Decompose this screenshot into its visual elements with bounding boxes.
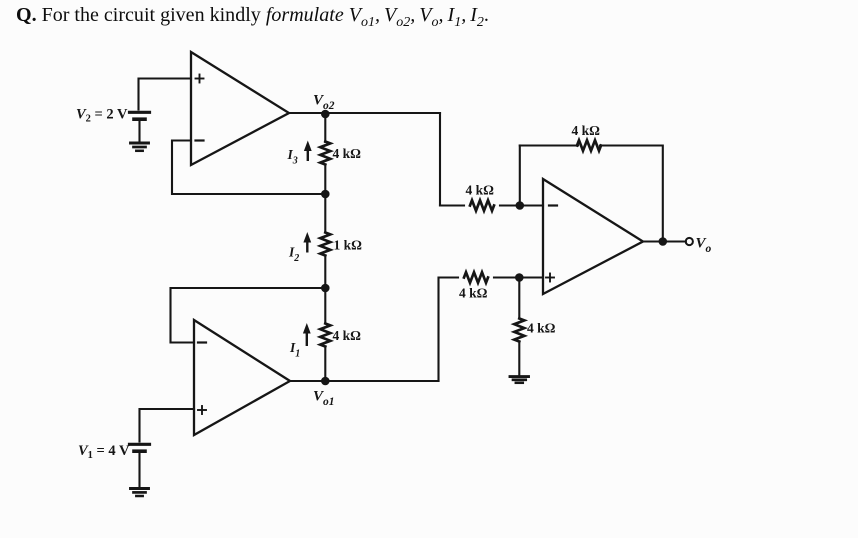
resistor 4 kOhm (U3 + to ground): [514, 319, 524, 342]
resistor 4 kOhm (to U3 + input): [464, 272, 488, 282]
resistor 4 kOhm (chain top): [320, 142, 330, 165]
wire: battery V1 to U2 + input: [140, 409, 195, 442]
op-amp U1 (top-left): [191, 52, 289, 165]
wire: U1 output to Vo2 riser: [289, 112, 440, 114]
svg-text:Vo2: Vo2: [313, 93, 335, 113]
wire: 4k resistor to node C: [500, 204, 543, 206]
svg-text:4 kΩ: 4 kΩ: [459, 286, 488, 301]
wire: U2 - input feedback from node B: [171, 288, 323, 343]
node A (U1 feedback node): [321, 190, 330, 199]
node D (U3 + input node): [515, 273, 524, 282]
wire: riser to 4k input resistor (top): [440, 204, 464, 206]
wire: node B to 4k resistor: [324, 288, 326, 324]
svg-text:Vo1: Vo1: [313, 389, 335, 409]
wire: 1k resistor to node B: [324, 256, 326, 289]
ground (U3 + network): [510, 377, 529, 383]
U2 inverting input '-' marker: [198, 341, 206, 343]
svg-text:V1 = 4 V: V1 = 4 V: [78, 443, 130, 461]
wire: 4k resistor to node Vo1: [324, 347, 326, 382]
wire: U2 output to Vo1 riser: [290, 380, 439, 382]
U2 non-inverting input '+' marker: [198, 406, 206, 414]
ground (below V2): [131, 143, 149, 151]
current arrow I2: [306, 241, 308, 253]
node at U3 output: [659, 237, 668, 246]
svg-text:4 kΩ: 4 kΩ: [333, 146, 362, 161]
resistor 4 kOhm (to U3 - input): [470, 200, 494, 210]
U1 non-inverting input '+' marker: [196, 75, 204, 83]
wire: feedback top right segment: [600, 146, 663, 242]
node C (U3 - input node): [516, 201, 525, 210]
wire: node C up to feedback resistor: [519, 146, 521, 206]
svg-text:I1: I1: [289, 340, 300, 360]
current arrow I1: [306, 332, 308, 347]
svg-text:V2 = 2 V: V2 = 2 V: [76, 107, 128, 125]
svg-text:I3: I3: [287, 147, 298, 167]
wire: 4k resistor to ground: [518, 342, 520, 376]
node Vo2: [321, 110, 330, 119]
wire: node A to 1k resistor: [324, 194, 326, 233]
current arrow I3: [307, 149, 309, 161]
node B (U2 feedback node): [321, 284, 330, 293]
node Vo1: [321, 377, 330, 386]
wire: battery V2 to ground: [138, 120, 140, 142]
U3 non-inverting input '+' marker: [546, 274, 554, 282]
battery V1 (4 V): [130, 444, 150, 451]
resistor 4 kOhm (U3 feedback): [577, 140, 601, 150]
wire: battery V1 to ground: [138, 452, 140, 487]
svg-text:Vo: Vo: [696, 236, 712, 256]
wire: Vo2 down to 4k resistor: [324, 114, 326, 142]
op-amp U3 (right): [543, 179, 643, 294]
output terminal Vo (open circle): [686, 238, 693, 245]
ground (below V1): [131, 489, 149, 497]
U1 inverting input '-' marker: [196, 139, 204, 141]
svg-text:4 kΩ: 4 kΩ: [466, 183, 495, 198]
U3 inverting input '-' marker: [549, 204, 557, 206]
wire: U1 - input feedback from node A: [172, 141, 322, 195]
svg-text:4 kΩ: 4 kΩ: [527, 321, 556, 336]
wire: node D down to 4k resistor: [518, 278, 520, 319]
svg-text:4 kΩ: 4 kΩ: [572, 123, 601, 138]
svg-text:1 kΩ: 1 kΩ: [334, 238, 363, 253]
wire: battery V2 to U1 + input: [139, 79, 192, 110]
resistor 4 kOhm (chain bottom): [320, 324, 330, 347]
wire: 4k resistor to node D: [494, 276, 543, 278]
resistor 1 kOhm (chain middle): [320, 233, 330, 256]
wire: Vo2 riser down to input resistor: [439, 113, 441, 206]
wire: feedback top left segment: [520, 144, 578, 146]
battery V2 (2 V): [130, 112, 150, 119]
wire: U3 output: [643, 240, 686, 242]
op-amp U2 (bottom-left): [194, 320, 290, 435]
wire: 4k resistor to node A: [324, 165, 326, 195]
svg-text:4 kΩ: 4 kΩ: [333, 328, 362, 343]
wire: Vo1 riser up to input resistor: [439, 278, 459, 382]
svg-text:I2: I2: [288, 245, 299, 265]
